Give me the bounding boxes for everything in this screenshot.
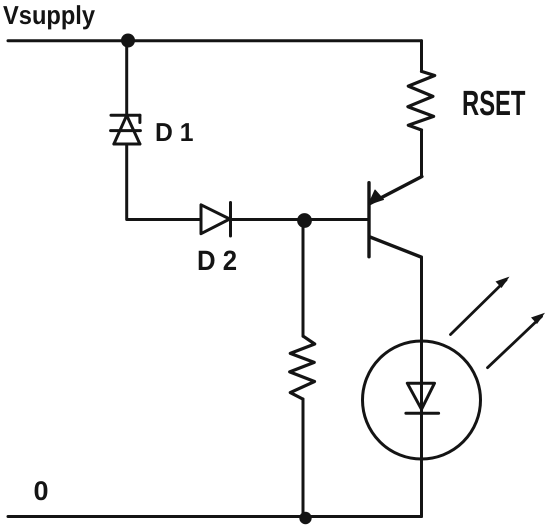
node ground junction — [299, 512, 311, 524]
LED diode — [406, 383, 439, 413]
wire D1 top lead — [125, 41, 128, 116]
LED circle — [363, 341, 481, 459]
transistor emitter arrow — [369, 190, 384, 205]
wire D1 bottom lead — [127, 144, 201, 220]
svg-text:D 1: D 1 — [155, 117, 193, 147]
LED arrow 1 — [451, 277, 510, 335]
svg-text:D 2: D 2 — [197, 245, 237, 276]
wire D2 to base — [231, 218, 370, 221]
LED arrow 2 — [488, 313, 546, 368]
wire resistor to ground rail — [302, 399, 305, 517]
wire collector to LED — [420, 257, 423, 517]
svg-text:Vsupply: Vsupply — [3, 0, 96, 30]
wire top rail — [8, 39, 422, 42]
resistor RSET — [408, 71, 435, 130]
svg-text:0: 0 — [34, 476, 49, 506]
node top junction — [121, 34, 135, 48]
wire junction to resistor — [302, 221, 305, 337]
wire RSET to emitter — [420, 130, 423, 177]
wire ground rail — [8, 515, 422, 518]
node base junction — [297, 213, 312, 228]
transistor Q1 — [369, 177, 422, 258]
diode D1 — [111, 115, 141, 144]
wire RSET top lead — [420, 41, 423, 72]
diode D2 — [201, 203, 231, 237]
resistor R1 — [290, 336, 315, 399]
svg-text:RSET: RSET — [462, 84, 525, 123]
